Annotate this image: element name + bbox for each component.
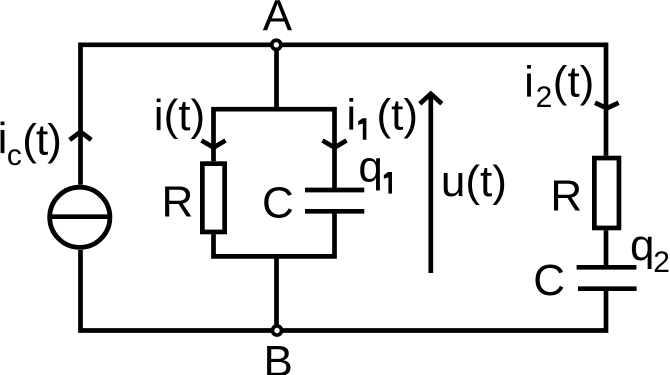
svg-text:(t): (t) — [22, 115, 61, 164]
svg-text:q: q — [630, 221, 654, 270]
svg-text:(t): (t) — [377, 90, 419, 139]
svg-text:q: q — [358, 142, 382, 191]
svg-text:A: A — [263, 0, 293, 41]
svg-text:u(t): u(t) — [441, 157, 507, 206]
svg-text:i(t): i(t) — [154, 91, 205, 140]
svg-text:i: i — [346, 90, 356, 139]
svg-text:C: C — [262, 179, 294, 228]
svg-text:c: c — [7, 139, 22, 172]
svg-text:C: C — [533, 256, 565, 305]
svg-text:2: 2 — [653, 246, 670, 279]
svg-text:R: R — [162, 177, 194, 226]
svg-text:B: B — [264, 337, 293, 375]
svg-text:2: 2 — [536, 81, 553, 114]
svg-text:R: R — [550, 172, 582, 221]
svg-text:i: i — [524, 58, 534, 107]
svg-text:(t): (t) — [553, 58, 595, 107]
